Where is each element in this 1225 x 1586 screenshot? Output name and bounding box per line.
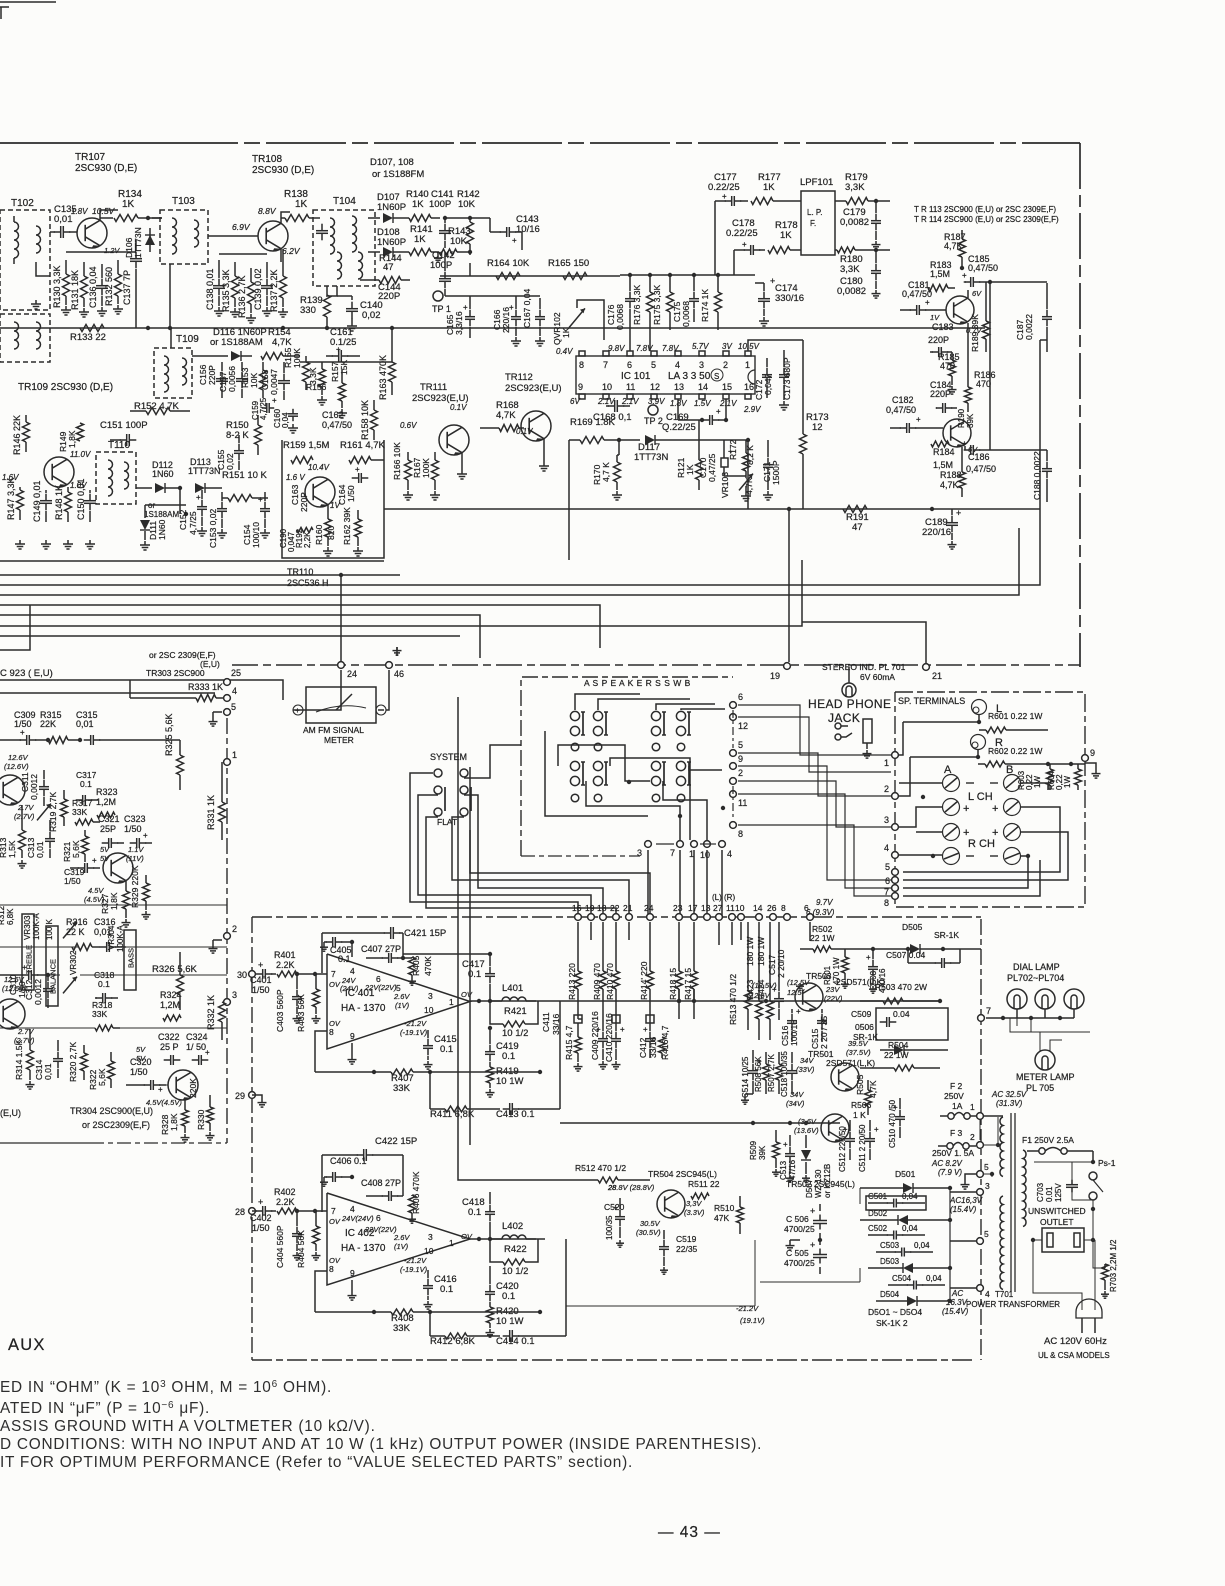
ground c405 xyxy=(323,944,325,947)
ground xyxy=(341,409,343,413)
connector pin 27 xyxy=(716,914,723,921)
transistor TR113 xyxy=(946,296,974,324)
IC U101 pin 13 xyxy=(675,394,681,399)
svg-text:C182: C182 xyxy=(892,395,914,405)
switch terminal 2 xyxy=(730,778,737,785)
node 2 xyxy=(977,1142,984,1149)
svg-text:R331 1K: R331 1K xyxy=(206,795,216,830)
svg-text:1.2V: 1.2V xyxy=(104,246,120,255)
svg-text:10 1W: 10 1W xyxy=(496,1316,523,1327)
ground TR112 emitter xyxy=(543,439,545,462)
capacitor C515 xyxy=(821,1014,823,1021)
svg-text:D CONDITIONS: WITH NO INPUT AN: D CONDITIONS: WITH NO INPUT AND AT 10 W … xyxy=(0,1436,762,1453)
svg-text:R176 3,3K: R176 3,3K xyxy=(632,285,642,325)
svg-text:OV: OV xyxy=(329,1256,341,1265)
junction xyxy=(700,418,704,422)
switch S4 pole2 xyxy=(677,794,685,802)
svg-text:1/ 50: 1/ 50 xyxy=(186,1042,206,1052)
ground xyxy=(805,1175,807,1178)
wire out402 xyxy=(470,1238,545,1240)
fuse F2 xyxy=(948,1113,954,1119)
svg-text:(15.4V): (15.4V) xyxy=(950,1205,977,1214)
capacitor C153 xyxy=(221,502,223,509)
resistor R146 xyxy=(23,422,30,442)
transformer T102 coil d xyxy=(36,322,41,349)
resistor R510 xyxy=(737,1207,744,1223)
ground xyxy=(145,911,147,915)
svg-text:R508 56K: R508 56K xyxy=(754,1056,763,1092)
ground node2 xyxy=(212,945,214,949)
svg-text:R411 6,8K: R411 6,8K xyxy=(430,1109,475,1120)
ground xyxy=(616,491,618,495)
svg-text:28.8V (28.8V): 28.8V (28.8V) xyxy=(607,1183,655,1192)
svg-text:VR304: VR304 xyxy=(107,925,116,950)
wire xyxy=(470,295,540,297)
wire xyxy=(66,251,136,253)
junction xyxy=(677,999,681,1003)
svg-text:METER: METER xyxy=(324,735,354,745)
diode D504 xyxy=(907,1296,917,1306)
svg-text:1: 1 xyxy=(449,1238,454,1248)
svg-text:8: 8 xyxy=(579,360,584,370)
svg-text:0,0022: 0,0022 xyxy=(1024,314,1034,340)
speakers switch box xyxy=(521,677,733,856)
resistor R142 xyxy=(467,222,474,244)
svg-text:47: 47 xyxy=(383,262,394,273)
ground xyxy=(125,919,127,923)
ground xyxy=(221,529,223,533)
wire C177 left drop xyxy=(714,201,716,275)
svg-text:C167 0,04: C167 0,04 xyxy=(522,289,532,328)
svg-text:1: 1 xyxy=(745,360,750,370)
capacitor C140 xyxy=(351,302,353,309)
ground xyxy=(209,1132,211,1136)
wire L post xyxy=(903,715,979,722)
switch terminal 11 xyxy=(730,791,737,798)
svg-text:28: 28 xyxy=(235,1207,245,1217)
wire Aminus xyxy=(899,782,942,784)
svg-text:AC16,3V: AC16,3V xyxy=(949,1196,983,1205)
diode D106 xyxy=(149,228,151,252)
ground xyxy=(489,1089,491,1093)
junction TR110 node xyxy=(339,573,343,577)
svg-text:0.1V: 0.1V xyxy=(516,427,533,436)
svg-text:19: 19 xyxy=(770,671,780,681)
capacitor C160 xyxy=(292,409,294,414)
wire preamp top 2 xyxy=(0,692,215,694)
resistor R317 xyxy=(75,819,93,825)
fuse F3 xyxy=(947,1143,953,1149)
svg-text:+: + xyxy=(512,236,517,245)
switch terminal 5 xyxy=(730,750,737,757)
resistor R316 xyxy=(72,944,92,951)
wire rect to caps xyxy=(859,1188,861,1204)
IC U101 pin 10 xyxy=(603,394,609,399)
capacitor C173 xyxy=(783,368,785,375)
junction xyxy=(295,1209,299,1213)
svg-text:1500P: 1500P xyxy=(771,460,781,485)
svg-text:TR112: TR112 xyxy=(505,372,533,383)
switch Ps-1 xyxy=(1089,1172,1097,1180)
wire C178 left drop xyxy=(733,250,735,275)
svg-text:+: + xyxy=(916,415,921,424)
resistor R422 xyxy=(503,1259,525,1265)
ground xyxy=(1095,770,1097,774)
capacitor C520 xyxy=(619,1210,621,1217)
svg-text:R326 5,6K: R326 5,6K xyxy=(152,964,198,975)
svg-text:4.5V: 4.5V xyxy=(88,886,104,895)
capacitor C512 xyxy=(849,1132,851,1139)
svg-text:TP 1: TP 1 xyxy=(432,304,451,314)
svg-text:DIAL LAMP: DIAL LAMP xyxy=(1013,962,1060,972)
terminal post B- xyxy=(1004,775,1021,792)
transformer T109 coil b xyxy=(182,358,187,385)
svg-text:R162 39K: R162 39K xyxy=(342,507,352,545)
resistor R420 xyxy=(487,1307,494,1323)
wire -21 rail xyxy=(566,1305,755,1307)
wire sw mid2 xyxy=(681,709,725,710)
svg-text:1.6 V: 1.6 V xyxy=(286,473,305,482)
svg-text:4: 4 xyxy=(675,360,680,370)
svg-text:C519: C519 xyxy=(676,1234,697,1244)
svg-text:R602 0.22 1W: R602 0.22 1W xyxy=(988,746,1042,756)
svg-text:1.5V: 1.5V xyxy=(694,399,711,408)
svg-text:4,7K: 4,7K xyxy=(496,410,516,421)
svg-text:6,8K: 6,8K xyxy=(6,908,15,925)
transformer T104 xyxy=(313,210,375,286)
wire xyxy=(351,942,353,957)
svg-text:BASS: BASS xyxy=(127,948,136,968)
svg-text:5.7V: 5.7V xyxy=(692,342,709,351)
switch S1 pole2 xyxy=(571,794,579,802)
wire left stub xyxy=(0,605,30,650)
resistor R505 xyxy=(865,1090,872,1106)
transformer T103 coil a xyxy=(172,218,177,254)
resistor R154 xyxy=(261,353,283,360)
ground IC402 pin9 xyxy=(351,1280,353,1292)
wire emitter TR108 xyxy=(280,249,282,262)
svg-text:UNSWITCHED: UNSWITCHED xyxy=(1028,1206,1086,1216)
svg-text:1N60: 1N60 xyxy=(152,469,174,479)
resistor R178 xyxy=(768,247,790,254)
svg-text:1/50: 1/50 xyxy=(64,876,81,886)
svg-text:C 506: C 506 xyxy=(786,1214,809,1224)
diode D506 xyxy=(894,1045,904,1055)
control BASS xyxy=(124,930,136,990)
capacitor C164 xyxy=(352,477,359,479)
svg-text:39K: 39K xyxy=(758,1145,767,1160)
transistor TR110a xyxy=(44,457,74,487)
wire xyxy=(724,475,746,477)
svg-text:+: + xyxy=(295,706,300,715)
svg-text:T103: T103 xyxy=(172,196,195,207)
wire sw-sp link xyxy=(738,825,891,896)
ground xyxy=(296,1015,298,1019)
svg-text:1,8K: 1,8K xyxy=(109,892,119,910)
capacitor C406 xyxy=(326,1176,333,1178)
svg-text:+: + xyxy=(20,728,25,737)
wire xyxy=(110,739,180,741)
ground xyxy=(539,337,541,341)
connector pin 11 xyxy=(729,914,736,921)
svg-text:11: 11 xyxy=(738,798,747,808)
wire C421 left xyxy=(321,933,323,973)
ground xyxy=(212,718,214,722)
switch S2a contacts xyxy=(593,711,602,720)
svg-text:+: + xyxy=(258,495,263,504)
resistor R325a xyxy=(177,755,184,775)
svg-text:13: 13 xyxy=(674,382,684,392)
wire c505 bottom xyxy=(760,1281,860,1283)
junction xyxy=(874,199,878,203)
ground xyxy=(844,981,846,984)
resistor R157 xyxy=(339,383,346,401)
svg-text:4: 4 xyxy=(232,686,237,696)
capacitor C156 xyxy=(221,372,223,379)
capacitor C159 xyxy=(262,407,267,409)
ground xyxy=(315,1252,317,1256)
capacitor C161 xyxy=(332,355,339,357)
diode D501 xyxy=(903,1183,913,1193)
svg-text:0.04: 0.04 xyxy=(893,1009,910,1019)
svg-text:1N60P: 1N60P xyxy=(377,202,406,213)
lamp PL703 xyxy=(1035,989,1055,1009)
svg-text:2SC930 (D,E): 2SC930 (D,E) xyxy=(252,165,314,176)
transistor TR110b xyxy=(305,477,335,507)
resistor R405 xyxy=(409,957,416,975)
svg-text:R325 5,6K: R325 5,6K xyxy=(164,713,174,756)
svg-text:12.6V: 12.6V xyxy=(4,975,25,984)
svg-text:0,47/50: 0,47/50 xyxy=(886,405,916,415)
svg-text:2.1V: 2.1V xyxy=(719,399,737,408)
wire A2plus xyxy=(916,831,942,833)
wire meterlamp xyxy=(1010,1018,1040,1051)
meter plus terminal xyxy=(293,705,303,715)
wire t8 xyxy=(903,860,1040,896)
capacitor C187 xyxy=(1046,310,1048,317)
svg-text:3,3V: 3,3V xyxy=(686,1199,702,1208)
wire plug right xyxy=(1093,1240,1105,1268)
resistor R424 xyxy=(767,1001,774,1019)
wire xyxy=(337,295,352,297)
resistor R141 xyxy=(409,249,431,256)
svg-text:8-2 K: 8-2 K xyxy=(226,430,249,441)
svg-text:22 1W: 22 1W xyxy=(884,1050,909,1060)
node t2 xyxy=(892,793,899,800)
svg-text:C511 2 20/50: C511 2 20/50 xyxy=(858,1124,867,1172)
switch S4b contacts xyxy=(676,761,685,770)
op-amp IC402 xyxy=(327,1193,470,1285)
svg-text:R332 1K: R332 1K xyxy=(206,995,216,1030)
svg-text:UL & CSA MODELS: UL & CSA MODELS xyxy=(1038,1351,1110,1360)
capacitor C149 xyxy=(45,494,47,501)
transformer T102 xyxy=(0,210,50,310)
node 3 xyxy=(224,999,231,1006)
capacitor C177 xyxy=(725,200,732,202)
switch terminal 12 xyxy=(730,714,737,721)
wire pin15 down xyxy=(725,399,727,420)
svg-text:24: 24 xyxy=(644,903,654,913)
wire main AM bus xyxy=(0,327,985,329)
transformer T110 xyxy=(96,452,136,504)
resistor R174 xyxy=(715,292,722,312)
svg-text:+: + xyxy=(810,1206,815,1216)
svg-text:D502: D502 xyxy=(868,1209,888,1218)
ground xyxy=(951,386,953,390)
ground xyxy=(875,241,877,245)
svg-text:AM FM SIGNAL: AM FM SIGNAL xyxy=(303,725,364,735)
svg-text:R158 10K: R158 10K xyxy=(360,400,370,440)
svg-text:+: + xyxy=(716,407,721,416)
capacitor C409 xyxy=(602,1032,604,1039)
svg-text:5: 5 xyxy=(738,740,743,750)
resistor R183 xyxy=(928,285,948,292)
svg-text:0,0082: 0,0082 xyxy=(840,217,869,228)
capacitor small c xyxy=(646,1015,654,1023)
svg-text:26: 26 xyxy=(767,903,777,913)
capacitor C309 xyxy=(20,739,27,741)
resistor R175 xyxy=(667,292,674,312)
svg-text:-21.2V: -21.2V xyxy=(404,1019,427,1028)
diode D113 xyxy=(195,483,205,493)
wire sw inner6 xyxy=(689,766,722,770)
svg-text:(12.6V): (12.6V) xyxy=(2,984,27,993)
svg-text:+: + xyxy=(962,271,967,280)
psu dash-dot bottom border xyxy=(252,1359,975,1361)
minus sign2 xyxy=(966,855,974,857)
IC U101 pin 16 xyxy=(745,394,751,399)
svg-text:1V: 1V xyxy=(930,313,940,322)
svg-text:R513 470 1/2: R513 470 1/2 xyxy=(728,974,738,1025)
svg-text:C406 0.1: C406 0.1 xyxy=(330,1156,367,1166)
svg-text:33K: 33K xyxy=(92,1009,107,1019)
meter wire right xyxy=(386,670,389,710)
capacitor C168 xyxy=(608,405,615,407)
svg-text:R135 3,3K: R135 3,3K xyxy=(221,269,231,312)
transistor TR-top xyxy=(795,983,823,1011)
svg-text:1: 1 xyxy=(884,758,889,768)
svg-text:R330: R330 xyxy=(196,1109,206,1130)
wire Aplus xyxy=(899,807,942,827)
junction xyxy=(930,507,934,511)
svg-text:4: 4 xyxy=(350,1204,355,1214)
ground R405 xyxy=(411,978,413,981)
junction xyxy=(488,952,492,956)
IC U101 pin 12 xyxy=(651,394,657,399)
svg-text:10 1W: 10 1W xyxy=(496,1076,523,1087)
resistor R513 xyxy=(745,991,752,1009)
resistor R149 xyxy=(77,423,84,441)
wire sw inner3 xyxy=(586,781,680,840)
svg-text:R CH: R CH xyxy=(968,838,995,850)
wire xyxy=(152,217,162,219)
svg-text:22 1W: 22 1W xyxy=(810,933,835,943)
resistor R332 xyxy=(219,1002,226,1022)
capacitor C181 xyxy=(910,309,917,311)
connector pin 10 xyxy=(738,914,745,921)
svg-text:8.8V: 8.8V xyxy=(258,206,277,216)
capacitor C175 xyxy=(693,292,695,299)
svg-text:IT FOR OPTIMUM PERFORMANCE (Re: IT FOR OPTIMUM PERFORMANCE (Refer to “VA… xyxy=(0,1454,633,1471)
wire xyxy=(130,697,196,699)
svg-text:3V: 3V xyxy=(722,342,732,351)
svg-text:+: + xyxy=(92,856,97,865)
resistor R328 xyxy=(182,1110,189,1126)
wire sw-sp link xyxy=(738,781,891,827)
capacitor C519 xyxy=(663,1240,665,1247)
wire xyxy=(620,274,755,276)
meter wire left xyxy=(293,670,341,710)
wire sw top2 xyxy=(598,699,690,710)
capacitor C418 xyxy=(489,1205,491,1212)
filter U-LPF101 box xyxy=(801,191,835,255)
ground xyxy=(964,1181,966,1185)
svg-text:2.1V: 2.1V xyxy=(621,397,639,406)
svg-text:1K: 1K xyxy=(763,182,775,193)
wire xyxy=(0,946,78,948)
svg-text:5: 5 xyxy=(984,1162,989,1172)
junction xyxy=(1091,1160,1095,1164)
wire ps1 feed xyxy=(1092,1151,1094,1162)
svg-text:470/16: 470/16 xyxy=(878,968,887,993)
svg-text:0.1: 0.1 xyxy=(468,1207,481,1218)
svg-text:L. P.: L. P. xyxy=(807,208,822,217)
svg-text:10.5V: 10.5V xyxy=(738,342,760,351)
svg-text:ED IN “OHM” (K = 103 OHM, M =: ED IN “OHM” (K = 103 OHM, M = 106 OHM). xyxy=(0,1379,332,1396)
svg-text:0,04: 0,04 xyxy=(926,1274,942,1283)
svg-text:5V: 5V xyxy=(136,1045,146,1054)
wire rect bus xyxy=(949,1188,951,1301)
resistor R172 xyxy=(743,453,750,471)
outer frame right dash-dot border xyxy=(1079,143,1081,667)
svg-text:33K: 33K xyxy=(72,807,87,817)
node 4 xyxy=(224,695,231,702)
IC U101 pin 3 xyxy=(699,351,705,356)
svg-text:C409 220/16: C409 220/16 xyxy=(590,1011,600,1060)
wire xyxy=(577,300,604,340)
svg-text:or 2SC2309(E,F): or 2SC2309(E,F) xyxy=(82,1120,150,1130)
svg-text:B: B xyxy=(1006,764,1013,776)
svg-text:+: + xyxy=(783,1140,788,1149)
capacitor C509 cap xyxy=(880,1021,887,1023)
svg-text:8: 8 xyxy=(329,1264,334,1274)
svg-text:0.1: 0.1 xyxy=(80,779,92,789)
resistor R601 xyxy=(986,727,1006,733)
svg-text:R314 1.5K: R314 1.5K xyxy=(14,1040,24,1080)
svg-text:(1V): (1V) xyxy=(395,1001,410,1010)
svg-text:2SC923(E,U): 2SC923(E,U) xyxy=(505,383,562,394)
lamp PL702 xyxy=(1007,989,1027,1009)
wire xyxy=(0,1027,95,1029)
resistor R410 xyxy=(613,971,620,989)
resistor R329 xyxy=(143,883,150,901)
svg-text:24: 24 xyxy=(347,669,357,679)
svg-text:(12.6V): (12.6V) xyxy=(4,762,29,771)
svg-text:TR504 2SC945(L): TR504 2SC945(L) xyxy=(648,1169,717,1179)
capacitor C421 xyxy=(384,932,391,934)
svg-text:(-19.1V): (-19.1V) xyxy=(400,1028,428,1037)
svg-text:470: 470 xyxy=(976,379,991,389)
svg-text:1/50: 1/50 xyxy=(124,824,142,834)
ground xyxy=(321,396,323,400)
switch S4 pole xyxy=(677,743,685,751)
node 3 xyxy=(977,1189,984,1196)
wire xyxy=(748,340,803,351)
svg-text:25 P: 25 P xyxy=(160,1042,179,1052)
resistor R416 xyxy=(659,1037,666,1053)
wire TR113 collector xyxy=(967,290,969,298)
junction xyxy=(1001,1016,1005,1020)
